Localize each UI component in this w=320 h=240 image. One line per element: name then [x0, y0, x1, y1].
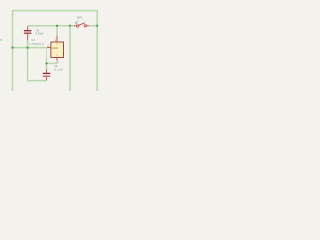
svg-text:BT1: BT1	[77, 16, 83, 20]
op-amp U4 regulator box	[51, 42, 64, 57]
wire top rail	[13, 11, 98, 91]
wire regulator bottom stub	[56, 60, 58, 63]
switch right contact	[84, 25, 86, 27]
wire GND horizontal	[13, 47, 48, 49]
wire OUT horizontal	[47, 62, 58, 64]
junction at OUT-C2	[45, 62, 47, 64]
svg-text:L7805CV: L7805CV	[29, 42, 44, 46]
capacitor C4	[24, 26, 31, 40]
svg-text:0.1uF: 0.1uF	[54, 68, 63, 72]
pin switch left	[74, 25, 77, 27]
label value smudge	[75, 21, 77, 24]
wire C2 top stub	[46, 63, 48, 69]
switch left contact	[77, 25, 79, 27]
junction at GND-left rail	[11, 46, 13, 48]
wire switch right to rail	[89, 25, 98, 27]
switch BT1	[74, 23, 89, 27]
wire C4 bottom vertical	[27, 40, 29, 80]
svg-text:U4: U4	[31, 38, 35, 42]
junction at IN-reg pin	[56, 25, 58, 27]
wire left edge stub	[0, 39, 2, 41]
svg-text:0.33uF: 0.33uF	[36, 32, 44, 36]
svg-text:GND: GND	[52, 46, 58, 50]
junction at right rail-switch	[96, 25, 98, 27]
pin GND left pin	[47, 47, 51, 49]
wire regulator top drop	[56, 26, 58, 36]
pin switch right	[86, 25, 88, 27]
wire IN net horizontal	[28, 25, 74, 27]
wire x70 vertical	[69, 26, 71, 91]
junction at GND-C4 branch	[26, 46, 28, 48]
wire C2 bottom to rail	[28, 79, 47, 82]
pin VO bottom pin	[56, 57, 58, 60]
wire faint vertical x46.5	[46, 48, 48, 57]
capacitor C2	[43, 69, 50, 80]
junction at IN-x70	[69, 25, 71, 27]
wire faint vertical lower part	[46, 57, 48, 63]
svg-text:C2: C2	[54, 64, 58, 68]
switch lever	[79, 23, 85, 25]
pin VI top pin	[56, 36, 58, 42]
